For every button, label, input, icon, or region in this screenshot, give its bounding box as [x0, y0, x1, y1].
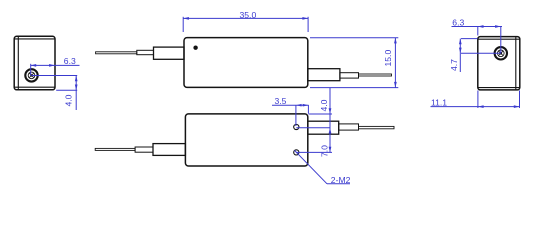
svg-text:6.3: 6.3 — [64, 56, 76, 66]
dimension 15.0 (top view) — [310, 38, 398, 88]
bottom view right fiber — [359, 126, 395, 128]
svg-text:3.5: 3.5 — [275, 96, 287, 106]
bottom view left ferrule — [135, 147, 153, 152]
left view inner edge line (top) — [15, 38, 55, 40]
bottom view upper hole — [294, 124, 299, 129]
left view inner edge line (left) — [17, 37, 19, 90]
svg-text:35.0: 35.0 — [240, 10, 257, 20]
dimension 4.0 (left view) — [32, 76, 78, 111]
top view right ferrule — [340, 73, 359, 78]
bottom view right ferrule — [339, 124, 359, 130]
svg-text:15.0: 15.0 — [383, 50, 393, 67]
dimension 7.0 (bottom view) — [296, 128, 332, 153]
right view inner edge line (top) — [478, 38, 519, 40]
top view right boot — [308, 69, 340, 81]
right view inner edge line (bottom) — [478, 87, 519, 89]
dimension 6.3 (left view) — [31, 64, 80, 76]
svg-text:4.7: 4.7 — [449, 59, 459, 71]
left view body outline — [14, 36, 55, 90]
bottom view lower hole (M2) — [294, 150, 299, 155]
top view right fiber — [359, 74, 392, 76]
dimension 4.7 (right view) — [459, 39, 501, 72]
dimension 3.5 (bottom view) — [272, 104, 309, 126]
dimension 35.0 (top view) — [183, 17, 308, 32]
bottom view right boot — [308, 121, 339, 134]
svg-text:4.0: 4.0 — [319, 99, 329, 111]
bottom view left boot — [153, 144, 185, 156]
top view left ferrule — [137, 50, 154, 54]
top view left fiber — [96, 52, 137, 54]
bottom view body — [185, 114, 307, 166]
top view body — [184, 38, 308, 88]
right view body outline — [478, 37, 520, 90]
top view left boot — [154, 47, 185, 59]
svg-text:2-M2: 2-M2 — [331, 175, 351, 185]
2-M2 leader and label — [294, 150, 350, 184]
left view inner edge line (bottom) — [15, 86, 55, 88]
svg-text:6.3: 6.3 — [452, 18, 464, 28]
dimension 11.1 (right view) — [431, 91, 520, 109]
top view pin dot — [193, 46, 197, 50]
svg-text:7.0: 7.0 — [320, 145, 330, 157]
svg-text:4.0: 4.0 — [64, 94, 74, 106]
svg-text:11.1: 11.1 — [431, 98, 447, 108]
bottom view left fiber — [95, 148, 135, 150]
dimension 6.3 (right view) — [452, 25, 503, 53]
left view screw hole — [25, 69, 37, 81]
right view screw hole — [495, 47, 507, 59]
right view inner edge line (right) — [515, 37, 517, 89]
dimension 4.0 (bottom view) — [309, 88, 333, 153]
